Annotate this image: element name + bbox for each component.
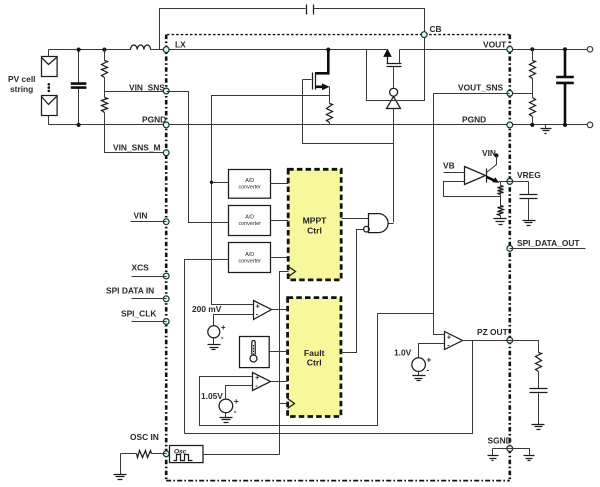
wire VOUT_SNS tap to pin [510,93,533,95]
svg-text:A/D: A/D [245,252,254,258]
pin VIN [163,219,169,225]
pin SPI DATA IN [163,296,169,302]
capacitor C4 (PZ ext) [530,389,548,393]
output capacitor C2 [564,49,567,76]
svg-text:SPI DATA IN: SPI DATA IN [106,286,154,296]
resistor R7 (VREG divider top) [500,182,502,186]
inductor L1 [131,45,151,50]
wire Q2 gate [393,67,395,88]
source V2 1.05V [219,399,233,413]
ground PZ ext [532,425,545,430]
wire PV top to input rail [48,50,50,57]
wire bootstrap cap to CB pin [314,9,425,35]
wire CB bootstrap loop [367,35,425,101]
resistor R3 (VOUT divider top) [532,50,534,61]
A/D converter 1 [229,170,271,199]
comparator U3 (current limit) [254,301,272,320]
svg-text:VREG: VREG [517,170,541,180]
wire XCS stub [132,276,167,278]
resistor R6 (OSC IN) [121,453,137,455]
comparator U6 (PZ OUT 1.0V) [445,332,463,350]
svg-text:converter: converter [238,184,261,190]
wire VOUT rail internal [400,49,510,51]
wire osc to MPPT clock [280,272,289,455]
wire osc output [204,454,280,456]
source V1 200mV [208,326,220,338]
svg-text:VIN: VIN [482,148,496,158]
resistor R5 (Q1 source sense) [327,104,333,123]
svg-text:-: - [426,365,429,375]
svg-text:SPI_DATA_OUT: SPI_DATA_OUT [517,238,580,248]
terminal PGND [587,122,593,128]
transistor Q2 (sync rectifier) [387,57,389,64]
pin VOUT [507,46,513,52]
resistor R1 (VIN_SNS divider top) [104,50,106,61]
pin SPI_DATA_OUT [507,246,513,252]
wire AD1 output [271,183,289,185]
wire AD1 input from sense [212,182,229,184]
pin VREG [507,179,513,185]
wire MPPT output to NAND [342,218,369,220]
svg-text:Ctrl: Ctrl [307,226,322,236]
resistor R9 (PZ ext) [536,353,542,372]
transistor Q3 (pass NPN) [486,169,488,183]
wire V2 to comp2 minus [226,386,253,400]
inverter U2 (gate driver) [390,88,398,96]
svg-text:converter: converter [238,259,261,265]
wire PGND rail (external left + internal + external right) [49,124,591,126]
A/D converter 3 [229,243,271,273]
temperature sensor [240,337,270,368]
ground (PGND external) [545,125,547,129]
resistor R2 (VIN_SNS divider bottom) [102,98,108,113]
wire AD3 input from PZ feedback [185,260,229,434]
wire SGND left [493,449,510,456]
wire SPI_CLK stub [132,321,167,323]
ground R8 [494,219,507,225]
Fault clock chevron [288,399,295,409]
PV cell 1 [42,57,58,77]
pin VIN_SNS_M [163,150,169,156]
pin VOUT_SNS [507,90,513,96]
wire VIN stub [131,221,167,223]
svg-text:200 mV: 200 mV [192,304,222,314]
wire AD2 output [271,220,289,222]
svg-text:Ctrl: Ctrl [307,358,322,368]
PV cell 2 [42,96,58,116]
wire V1 to comp1 minus [214,315,254,326]
NAND gate U5 [369,214,389,233]
resistor R4 (VOUT divider bottom) [530,98,536,117]
wire AD3 output [271,257,289,259]
input capacitor C1 [78,50,80,84]
wire VIN_SNS to AD2 input [167,92,229,223]
ground V2 [225,413,227,418]
wire PV bottom [48,116,50,125]
node: rail junctions [77,48,81,52]
svg-text:A/D: A/D [245,215,254,221]
svg-text:PGND: PGND [142,115,166,125]
wire comp1 output to Fault [272,309,288,311]
wire temp sensor to Fault [269,351,288,353]
pin OSC IN [163,451,169,457]
capacitor C3 (VREG ext) [528,182,530,195]
svg-text:string: string [10,84,33,94]
pin SGND [507,446,513,452]
wire VREG emitter to pin and cap [499,181,529,183]
wire VOUT rail external [510,49,591,51]
svg-text:1.0V: 1.0V [394,348,412,358]
svg-text:VIN_SNS: VIN_SNS [129,83,165,93]
wire inverter input from NAND [393,109,395,223]
pin PGND left [163,122,169,128]
wire VOUT_SNS to comp2 plus [200,314,378,426]
comparator U4 (OVP 1.05V) [253,373,271,391]
wire VIN_SNS tap to pin [105,91,167,93]
pin PGND right [507,122,513,128]
terminal VOUT [587,47,593,53]
svg-text:-: - [221,332,224,342]
wire feedback [444,182,501,197]
svg-text:+: + [426,355,431,365]
ground V1 [213,338,215,345]
svg-text:VIN: VIN [134,211,148,221]
source V3 1.0V [412,358,426,372]
wire SGND right [510,449,530,456]
wire comp output to PZ OUT pin [463,340,510,342]
wire Q1 gate [303,79,312,81]
A/D converter 2 [229,206,271,236]
ground V3 [418,372,420,376]
svg-text:+: + [234,396,239,406]
svg-text:LX: LX [175,40,186,50]
svg-text:VOUT_SNS: VOUT_SNS [458,83,504,93]
svg-text:SGND: SGND [488,436,512,446]
svg-text:PGND: PGND [462,115,486,125]
pin XCS [163,273,169,279]
wire VB input [444,172,465,174]
wire inductor to LX pin [151,49,167,51]
pin LX [163,47,169,53]
pin SPI_CLK [163,319,169,325]
resistor R8 (VREG divider bottom) [498,206,504,216]
svg-text:PZ OUT: PZ OUT [477,327,509,337]
amp U7 (VREG buffer) [465,167,486,185]
svg-text:MPPT: MPPT [303,216,328,226]
OSC IN ground [120,454,122,475]
svg-text:VB: VB [443,161,455,171]
bootstrap capacitor CB [307,5,314,15]
svg-text:VIN_SNS_M: VIN_SNS_M [113,143,160,153]
wire PZ OUT external [510,341,539,353]
svg-text:A/D: A/D [245,178,254,184]
svg-text:+: + [221,322,226,332]
wire SPI DATA IN stub [132,298,167,300]
transistor Q1 (low-side NMOS) [315,50,328,74]
wire LX rail internal [167,49,388,51]
wire LX to bootstrap cap [160,9,306,50]
wire VOUT_SNS sense down [434,94,510,335]
wire SPI_DATA_OUT stub [510,248,586,250]
svg-text:-: - [234,406,237,416]
wire V3 to comp minus [419,344,445,359]
wire current sense to comparator [212,96,330,305]
wire Q1 gate drive [303,80,394,144]
pin CB [421,32,427,38]
svg-text:CB: CB [430,24,442,34]
wire PZ feedback to AD3 [185,341,473,434]
svg-text:XCS: XCS [132,263,150,273]
MPPT Ctrl block [288,169,341,280]
wire VOUT_SNS branch to OVP [378,313,434,315]
svg-text:PV cell: PV cell [8,74,35,84]
svg-text:VOUT: VOUT [483,40,507,50]
MPPT clock chevron [289,267,296,277]
node LX drain junction [326,48,330,52]
pin VIN_SNS [163,88,169,94]
wire NAND output [389,223,394,225]
svg-text:1.05V: 1.05V [201,391,223,401]
wire osc to Fault clock [280,403,288,405]
svg-text:Fault: Fault [304,348,325,358]
svg-text:OSC IN: OSC IN [130,432,159,442]
oscillator block [170,446,204,463]
pin PZ OUT [507,337,513,343]
wire R2 bottom to VIN_SNS_M pin (kelvin) [105,113,167,153]
IC boundary dashed box [167,34,510,36]
wire Fault output to NAND [341,230,364,353]
Fault Ctrl block [288,298,341,417]
PV string ellipsis dots [48,83,51,86]
svg-text:SPI_CLK: SPI_CLK [121,309,156,319]
node VIN dot [494,153,498,157]
wire input top rail [49,49,131,51]
wire comp2 output to Fault [271,381,288,383]
svg-text:converter: converter [238,221,261,227]
